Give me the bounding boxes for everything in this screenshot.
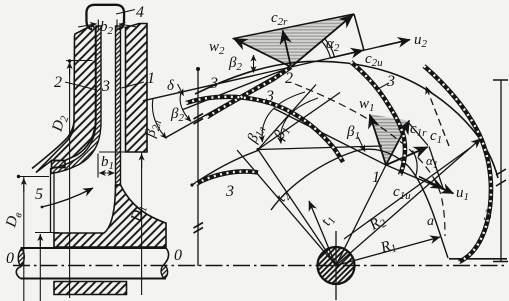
R2 line — [344, 148, 470, 239]
beta2 angle arc — [180, 93, 191, 122]
radius arrow to rim top right — [426, 87, 449, 147]
shading of w2-c2r triangle — [234, 15, 354, 67]
white ladder ticks over blade bands — [186, 62, 491, 262]
b1 extension line — [97, 154, 99, 178]
blade tangent line at P — [258, 85, 316, 150]
tangent line at 1 with u1 — [274, 109, 453, 194]
t1 arrow from O — [309, 201, 336, 266]
w1 vector — [370, 115, 386, 166]
delta arrow — [178, 84, 184, 96]
svg-text:4: 4 — [136, 4, 144, 21]
svg-text:2: 2 — [285, 70, 293, 87]
R2 radius arrow line from O — [336, 139, 481, 266]
blade 3 band top right — [351, 62, 405, 175]
casing outer wall line — [32, 122, 74, 169]
beta1 arc at P — [281, 98, 318, 144]
b1 dimension arrows — [99, 172, 106, 174]
D1 dimension line — [141, 153, 143, 296]
equality ticks left line — [194, 114, 204, 125]
c1 vector — [386, 147, 428, 165]
triangle top edge — [233, 14, 355, 39]
svg-text:2: 2 — [54, 74, 62, 91]
svg-text:1: 1 — [372, 169, 380, 186]
svg-text:3: 3 — [386, 73, 395, 90]
parallelogram edge c1r tip to c1 tip — [408, 122, 428, 146]
svg-text:3: 3 — [101, 78, 110, 95]
alpha2 arc — [322, 42, 331, 58]
svg-text:a: a — [427, 214, 434, 229]
flow arrow 5 — [42, 188, 93, 207]
b2 extension lines — [98, 20, 117, 31]
D2 extension line — [66, 60, 93, 62]
bottom right baseline — [449, 258, 507, 260]
beta2 gap arrow (between w2 and tangent) — [253, 55, 255, 73]
rear wall (disc 1) band — [116, 26, 121, 185]
shaft — [21, 248, 167, 279]
leader for 3 top right — [376, 83, 389, 90]
shading w1 triangle — [370, 114, 410, 164]
beta2l angle arc — [152, 99, 166, 139]
c1u arrow — [419, 177, 443, 189]
alpha1 arc — [413, 151, 418, 178]
shaft break left — [18, 249, 24, 267]
svg-text:3: 3 — [483, 207, 492, 224]
right dimension line — [500, 80, 502, 262]
D2 dimension line — [69, 62, 71, 298]
inlet arc (blade inner circle, right) — [271, 149, 448, 258]
blade 3 band lower left — [196, 171, 258, 184]
svg-text:3: 3 — [225, 183, 234, 200]
beta1 arrow at 1 — [358, 137, 365, 152]
leader for label 1 — [122, 82, 145, 88]
hub sleeve dimension line — [35, 232, 59, 234]
seal ring on shroud — [52, 161, 66, 168]
beta1l arc at P — [262, 92, 305, 142]
w2 vector — [234, 39, 292, 68]
flow direction line at 2 — [183, 67, 291, 110]
svg-text:δ: δ — [167, 78, 175, 94]
hub sleeve below axis (mirror) — [54, 282, 127, 295]
svg-text:3: 3 — [265, 88, 274, 105]
left casing block — [36, 26, 96, 173]
projection from c2 tip — [354, 14, 364, 51]
hub circle — [318, 247, 355, 284]
c2 vector — [291, 15, 353, 67]
svg-text:0: 0 — [174, 247, 182, 264]
svg-text:5: 5 — [35, 186, 43, 203]
Dv extension line — [19, 176, 50, 178]
blade 3 band into point 2 — [207, 67, 291, 117]
front shroud (wall 2) curved band — [51, 26, 101, 174]
right casing block — [126, 24, 148, 153]
D1 extension line — [99, 151, 142, 153]
svg-text:3: 3 — [209, 75, 218, 92]
c2u arrow on tangent — [330, 50, 363, 58]
radius line O to 1 — [336, 165, 386, 266]
svg-text:1: 1 — [147, 70, 155, 87]
shaft break right — [161, 265, 168, 279]
c2r vector — [283, 31, 291, 68]
Dv dimension line — [23, 177, 25, 301]
leader for label 4 — [116, 10, 135, 15]
hub with rear disc flare and sleeve — [54, 185, 166, 247]
suction pipe wall (eye edge) — [51, 168, 55, 233]
leader for label 2 — [65, 82, 97, 90]
construction at point P (inlet blade angle) — [256, 148, 259, 151]
outer rim arc through point 2 — [195, 61, 498, 178]
blade chord line at 2 — [165, 67, 291, 138]
c1r vector — [386, 121, 409, 166]
svg-text:0: 0 — [6, 250, 14, 267]
hub vertical centerline — [335, 231, 337, 300]
w1 direction line at P — [258, 93, 340, 150]
R1 line — [336, 237, 440, 266]
projection c1 tip to c1u tip — [429, 147, 443, 189]
radial line O to t2 — [237, 150, 336, 266]
volute dome 4 — [86, 5, 124, 29]
tangent line at 2 with u2 vector — [143, 40, 410, 101]
radius line O to P — [258, 150, 336, 266]
inlet arc to point P — [190, 183, 193, 186]
left reference line — [197, 69, 199, 266]
blade 3 long band upper middle — [186, 97, 343, 162]
axis 0-0 dash-dot — [13, 265, 506, 267]
b2 dimension arrows — [78, 24, 97, 27]
chord line at P — [258, 146, 382, 150]
blade 3 band far right — [424, 66, 491, 262]
